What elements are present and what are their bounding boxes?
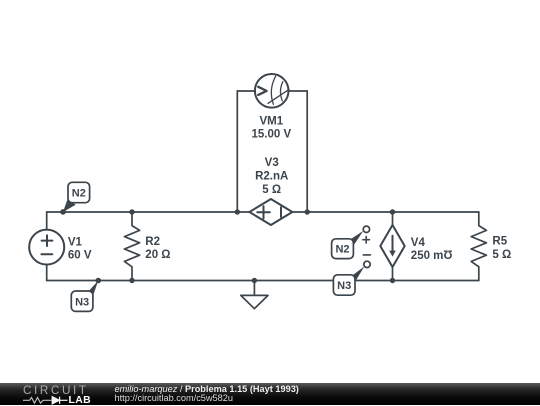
- svg-text:N3: N3: [75, 296, 89, 308]
- junction dot: R2 top: [129, 209, 134, 214]
- terminal - (open circle bottom): [364, 261, 370, 267]
- svg-text:V1: V1: [68, 236, 83, 248]
- node flag N2 (left): [63, 182, 90, 212]
- svg-text:V4: V4: [411, 237, 426, 249]
- wire: V4 top lead: [392, 212, 394, 225]
- junction dot: R2 bottom: [129, 278, 134, 283]
- credit text line 1: [115, 385, 299, 394]
- dependent source V3 (diamond): [249, 199, 292, 225]
- wire: V4 bottom lead: [392, 267, 394, 281]
- voltage source V1: [29, 230, 64, 265]
- wire: top rail right segment (V3 right tip to R5 corner): [292, 211, 479, 213]
- svg-text:5 Ω: 5 Ω: [262, 184, 281, 196]
- svg-text:VM1: VM1: [259, 115, 283, 127]
- svg-text:N2: N2: [335, 244, 349, 256]
- voltmeter VM1: [255, 74, 289, 108]
- wire: voltmeter branch right vertical: [306, 91, 308, 212]
- svg-text:N2: N2: [72, 188, 86, 200]
- junction dot: V4 bottom: [390, 278, 395, 283]
- junction dot: N2 flag on top rail: [60, 209, 66, 215]
- svg-text:V3: V3: [265, 157, 279, 169]
- current source V4 (diamond): [380, 225, 404, 267]
- svg-text:5 Ω: 5 Ω: [492, 249, 511, 261]
- wire: top rail left segment (V1 top to V3 left tip): [47, 211, 250, 213]
- wire: voltmeter branch left vertical: [236, 91, 238, 212]
- junction dot: V4 top: [390, 209, 395, 214]
- svg-text:R2: R2: [145, 236, 160, 248]
- node flag N3 (left): [71, 281, 98, 312]
- node flag N3 (right): [333, 266, 364, 295]
- junction dot: voltmeter right: [305, 209, 310, 214]
- minus mark: [363, 254, 370, 256]
- wire: bottom rail: [47, 280, 479, 282]
- junction dot: N3 flag on bottom rail: [96, 278, 102, 284]
- plus mark: [363, 236, 370, 243]
- wire: left vertical above V1: [46, 212, 48, 230]
- svg-text:20 Ω: 20 Ω: [145, 249, 170, 261]
- resistor R5: [471, 212, 486, 281]
- svg-text:N3: N3: [337, 280, 351, 292]
- junction dot: ground: [252, 278, 257, 283]
- junction dot: voltmeter left: [235, 209, 240, 214]
- wire: voltmeter branch right horizontal: [288, 90, 307, 92]
- node flag N2 (right): [332, 231, 364, 259]
- wire: left vertical below V1: [46, 264, 48, 280]
- svg-text:R5: R5: [492, 236, 507, 248]
- resistor R2: [124, 212, 139, 281]
- CircuitLab logo text CIRCUIT: [23, 385, 89, 397]
- ground: [241, 281, 268, 309]
- CircuitLab logo text LAB: [69, 396, 92, 406]
- wire: voltmeter branch left horizontal: [237, 90, 255, 92]
- svg-text:60 V: 60 V: [68, 249, 92, 261]
- credit text line 2: [115, 394, 233, 403]
- svg-text:R2.nA: R2.nA: [255, 170, 288, 182]
- svg-text:15.00 V: 15.00 V: [251, 128, 291, 140]
- svg-text:250 mƱ: 250 mƱ: [411, 250, 453, 262]
- footer bar: [0, 383, 540, 405]
- CircuitLab logo resistor-diode drawing: [21, 395, 69, 405]
- terminal + (open circle top): [363, 226, 369, 232]
